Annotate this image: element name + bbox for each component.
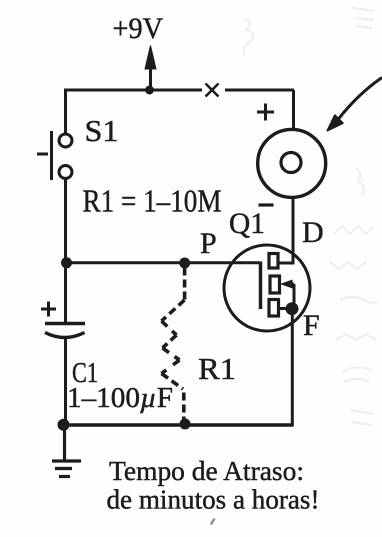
buzzer BZ xyxy=(258,129,326,197)
svg-text:R1 = 1–10M: R1 = 1–10M xyxy=(83,183,222,219)
small stray ink tick near bottom xyxy=(211,519,215,525)
ground xyxy=(52,425,81,477)
wire left rail mid xyxy=(64,179,67,324)
wire top rail left xyxy=(64,89,202,92)
label buzzer minus xyxy=(259,203,274,206)
faint page bleed-through marks (decorative, not labelled) xyxy=(244,8,378,425)
wire top rail right xyxy=(225,89,294,92)
svg-text:R1: R1 xyxy=(198,351,236,386)
wire right rail lower xyxy=(291,309,294,426)
Q1 body arrow xyxy=(280,280,294,307)
Q1 gate bar xyxy=(259,262,263,310)
capacitor C1 bottom plate xyxy=(45,333,85,338)
junction dot left rail / P wire xyxy=(61,257,72,268)
Q1 source lead xyxy=(279,307,293,310)
svg-text:Tempo de Atraso:: Tempo de Atraso: xyxy=(109,455,304,486)
capacitor C1 top plate xyxy=(45,322,85,326)
transistor Q1 body circle xyxy=(224,245,310,331)
label buzzer plus xyxy=(257,104,274,121)
resistor R1 dashed xyxy=(162,268,185,422)
svg-text:+9V: +9V xyxy=(113,12,164,45)
wire bottom rail xyxy=(63,423,294,427)
capacitor C1 plus sign xyxy=(41,302,56,317)
wire buzzer top lead xyxy=(292,90,295,130)
svg-text:D: D xyxy=(302,216,324,249)
junction dot bottom left xyxy=(58,419,70,431)
Q1 drain lead xyxy=(278,197,293,263)
svg-text:P: P xyxy=(200,227,217,260)
junction dot source/body xyxy=(286,302,299,315)
svg-text:Q1: Q1 xyxy=(229,207,265,240)
Q1 source segment xyxy=(269,300,279,317)
svg-text:de minutos a horas!: de minutos a horas! xyxy=(107,484,320,515)
switch S1 xyxy=(37,131,72,180)
break mark x on top wire xyxy=(206,84,219,97)
wire left rail lower xyxy=(64,338,67,426)
junction dot R1 top xyxy=(179,258,190,269)
Q1 drain segment xyxy=(269,254,278,269)
svg-text:S1: S1 xyxy=(85,113,119,148)
node: top wire junction dot xyxy=(145,86,154,95)
+9V supply arrow xyxy=(145,46,156,91)
Q1 channel mid segment xyxy=(270,276,280,293)
annotation arrow to buzzer xyxy=(328,78,382,131)
svg-text:F: F xyxy=(303,309,320,342)
svg-text:1–100µF: 1–100µF xyxy=(67,383,173,414)
wire left rail upper xyxy=(64,90,67,134)
junction dot R1 bottom xyxy=(180,419,191,430)
wire node P horizontal xyxy=(64,261,261,264)
